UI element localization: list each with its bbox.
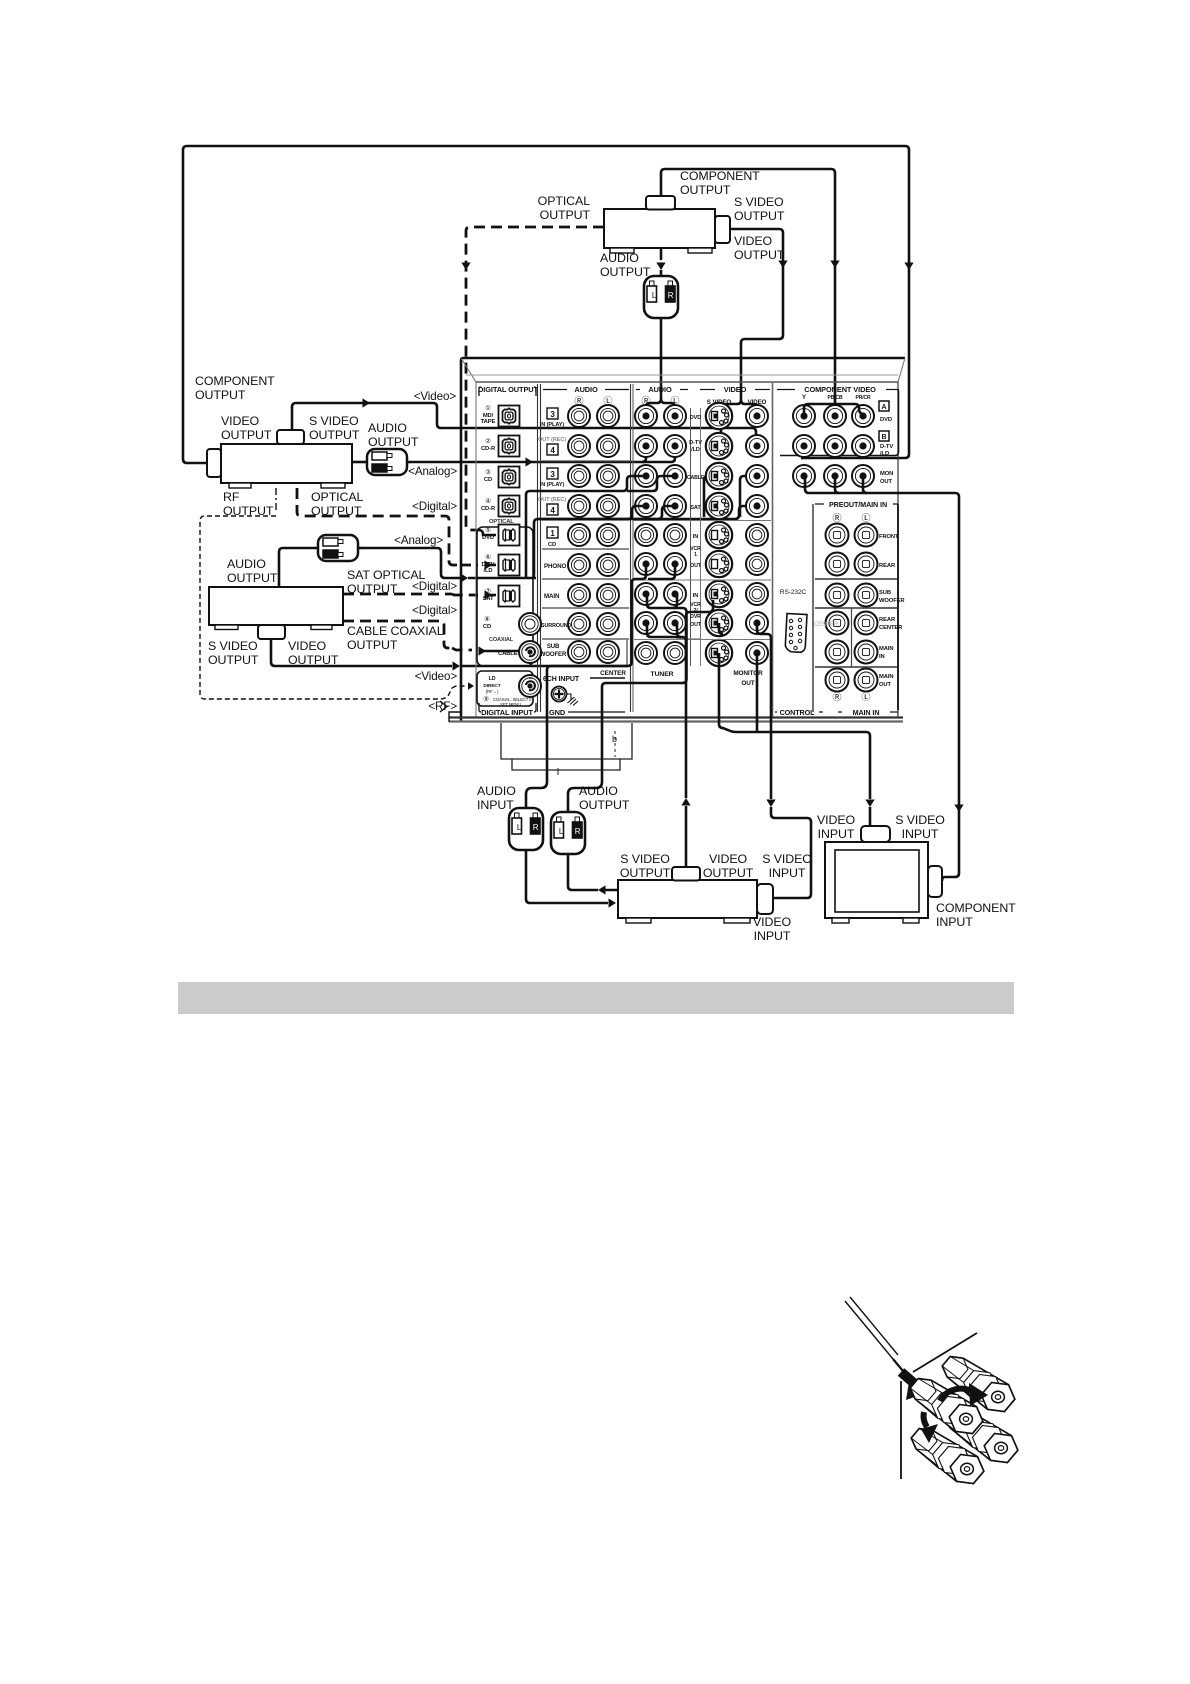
RCA pair plug icon (DVD audio) <box>644 270 678 324</box>
svg-text:REAR: REAR <box>879 617 896 623</box>
svg-text:OUTPUT: OUTPUT <box>680 183 731 197</box>
svg-text:CENTER: CENTER <box>600 670 626 677</box>
svg-text:OUTPUT: OUTPUT <box>540 208 591 222</box>
svg-text:S VIDEO: S VIDEO <box>208 639 258 653</box>
wire device2 audio output cable <box>279 548 313 587</box>
speaker binding post lower left <box>911 1429 984 1484</box>
wire cable coaxial output (dashed) to CABLE coax input <box>343 621 452 648</box>
svg-text:OPTICAL: OPTICAL <box>311 490 364 504</box>
svg-text:SURROUND: SURROUND <box>541 623 572 629</box>
svg-text:<Analog>: <Analog> <box>408 465 457 478</box>
speaker binding post upper right <box>942 1357 1015 1412</box>
svg-text:⑨: ⑨ <box>483 695 489 703</box>
wire VCR1 OUT audio to VCR audio input (via bottom) <box>642 564 675 579</box>
svg-text:DVD: DVD <box>690 415 702 421</box>
svg-text:FRONT: FRONT <box>879 534 899 540</box>
speaker wire <box>845 1301 893 1359</box>
svg-text:OUTPUT: OUTPUT <box>227 571 278 585</box>
speaker panel corner <box>913 1333 977 1372</box>
wire DVD component output to component A jacks <box>661 169 835 410</box>
wire MONITOR OUT s-video down to junction <box>719 653 752 732</box>
svg-text:GND: GND <box>549 708 566 717</box>
VCR box <box>618 880 757 918</box>
svg-text:OUT (REC): OUT (REC) <box>538 437 566 443</box>
wire DVD audio output cable <box>660 248 663 260</box>
svg-text:OUT: OUT <box>741 680 754 687</box>
svg-text:TUNER: TUNER <box>651 671 674 678</box>
svg-text:Ⓡ: Ⓡ <box>833 692 842 702</box>
PREOUT/MAIN IN section <box>812 504 814 712</box>
svg-text:SAT: SAT <box>483 596 494 602</box>
svg-text:1: 1 <box>694 552 697 558</box>
svg-text:VIDEO: VIDEO <box>221 414 260 428</box>
wire video CABLE drop <box>740 476 755 517</box>
svg-text:AUDIO: AUDIO <box>477 784 516 798</box>
wire device1 audio output <Analog> <box>352 461 362 464</box>
svg-text:MAIN: MAIN <box>879 674 893 680</box>
svg-text:CABLE: CABLE <box>687 475 705 481</box>
wire split into S VIDEO DVD and VIDEO DVD jacks <box>723 400 741 414</box>
left device 1 box (player with component/RF) <box>221 444 352 483</box>
svg-text:A: A <box>882 404 887 411</box>
RCA pair plug icon (VCR audio input) <box>509 802 543 856</box>
svg-text:COMPONENT: COMPONENT <box>195 374 275 388</box>
svg-text:<Analog>: <Analog> <box>394 534 443 547</box>
svg-text:S VIDEO: S VIDEO <box>734 195 784 209</box>
svg-text:CD-R: CD-R <box>481 506 496 512</box>
svg-text:WOOFER: WOOFER <box>540 652 567 658</box>
svg-text:/LD: /LD <box>880 451 889 457</box>
wire DVD audio into AUDIO DVD jacks <box>646 324 661 414</box>
wire analog audio to AUDIO D-TV jacks <box>412 461 671 464</box>
wire SAT/CABLE video-svideo trunk along y=519 <box>538 506 755 519</box>
dashed mark <box>614 731 616 757</box>
svg-text:Ⓛ: Ⓛ <box>862 513 871 523</box>
optical connector D-TV/LD <box>499 555 520 576</box>
wire VCR2 OUT audio stubs <box>647 623 686 660</box>
svg-text:CD: CD <box>483 624 491 630</box>
TV box <box>825 842 928 918</box>
coaxial LD(RF) input jack <box>519 675 541 697</box>
svg-text:IN: IN <box>693 593 698 599</box>
svg-text:DIGITAL OUTPUT: DIGITAL OUTPUT <box>478 385 538 394</box>
svg-text:MAIN: MAIN <box>544 593 560 600</box>
AUDIO section RCA jacks (R/L columns) <box>568 405 590 427</box>
svg-text:OPTICAL: OPTICAL <box>489 519 514 525</box>
svg-text:INPUT: INPUT <box>769 866 806 880</box>
svg-text:WOOFER: WOOFER <box>879 598 905 604</box>
label strip VCR groups <box>690 408 692 666</box>
svg-text:VIDEO: VIDEO <box>817 813 856 827</box>
svg-text:INPUT: INPUT <box>902 827 939 841</box>
wire device1 S-video/video output <Video> to D-TV jacks <box>292 403 752 430</box>
svg-text:IN: IN <box>879 654 885 660</box>
svg-text:SUB: SUB <box>547 644 560 650</box>
svg-text:OUTPUT: OUTPUT <box>734 209 785 223</box>
svg-text:OUTPUT: OUTPUT <box>600 265 651 279</box>
svg-text:OUT: OUT <box>879 682 891 688</box>
wire component MON OUT to TV (down right side) <box>805 476 867 493</box>
svg-text:COMPONENT: COMPONENT <box>680 169 760 183</box>
svg-text:S VIDEO: S VIDEO <box>762 852 812 866</box>
wire MONITOR OUT video to TV video input <box>756 653 759 732</box>
wire VCR audio output to VCR2 IN jacks <box>600 889 618 892</box>
svg-text:IN (PLAY): IN (PLAY) <box>540 422 565 428</box>
svg-text:Y: Y <box>802 395 806 401</box>
svg-text:D-TV: D-TV <box>880 444 893 450</box>
VIDEO RCA jacks column <box>746 405 768 427</box>
svg-text:PREOUT/MAIN IN: PREOUT/MAIN IN <box>829 500 887 509</box>
wire RF routing loop (thin dashed) to LD RF input <box>200 516 452 699</box>
VIDEO / COMPONENT divider <box>772 383 774 717</box>
svg-text:3: 3 <box>550 470 555 479</box>
svg-text:OUTPUT: OUTPUT <box>347 582 398 596</box>
svg-text:<Video>: <Video> <box>414 390 457 403</box>
svg-text:MONITOR: MONITOR <box>733 670 763 677</box>
svg-text:D-TV: D-TV <box>689 440 702 446</box>
svg-text:②: ② <box>485 437 491 445</box>
svg-text:6CH INPUT: 6CH INPUT <box>543 676 580 683</box>
svg-text:3: 3 <box>550 410 555 419</box>
svg-text:AUDIO: AUDIO <box>368 421 407 435</box>
svg-text:⑧: ⑧ <box>484 615 490 623</box>
svg-text:COAXIAL: COAXIAL <box>489 637 514 643</box>
svg-text:MON: MON <box>880 471 893 477</box>
wire s-video VCR2 OUT stub <box>719 623 723 634</box>
svg-text:/LD: /LD <box>483 568 492 574</box>
svg-text:DVD: DVD <box>880 417 892 423</box>
left device 2 box (SAT/cable tuner) <box>209 587 343 625</box>
svg-text:Ⓛ: Ⓛ <box>862 692 871 702</box>
svg-text:AUDIO: AUDIO <box>648 385 672 394</box>
svg-text:OUTPUT: OUTPUT <box>309 428 360 442</box>
svg-text:CD: CD <box>484 477 492 483</box>
wire analog audio <Analog> into panel, to SAT audio jacks <box>363 548 460 578</box>
S VIDEO connectors column <box>706 403 732 429</box>
svg-text:REAR: REAR <box>879 563 896 569</box>
svg-text:AUDIO: AUDIO <box>579 784 618 798</box>
wire SAT optical output (dashed) to digital input 7 <box>343 593 452 596</box>
wire s-video SAT branch <box>704 505 712 508</box>
svg-text:VIDEO: VIDEO <box>724 385 747 394</box>
LD(RF) input box <box>477 671 533 706</box>
svg-text:<Digital>: <Digital> <box>412 580 457 593</box>
svg-text:/LD: /LD <box>691 447 700 453</box>
AUDIO source jacks column R/L <box>635 405 657 427</box>
svg-text:OUT: OUT <box>690 622 702 628</box>
svg-text:CABLE: CABLE <box>498 651 518 657</box>
svg-text:PR/CR: PR/CR <box>855 395 871 401</box>
svg-text:CENTER: CENTER <box>879 625 903 631</box>
ground symbol <box>566 694 578 706</box>
speaker binding post upper left (being tightened) <box>910 1379 983 1434</box>
receiver panel bottom double rail <box>449 716 903 718</box>
svg-text:OUT (REC): OUT (REC) <box>538 497 566 503</box>
label A DVD <box>879 401 889 411</box>
svg-text:RF: RF <box>223 490 240 504</box>
svg-text:VIDEO: VIDEO <box>734 234 773 248</box>
wire device1 optical output (heavy dashed) to digital input 6 <box>297 488 460 565</box>
svg-text:CD: CD <box>548 542 556 548</box>
svg-text:<Digital>: <Digital> <box>412 500 457 513</box>
svg-text:OUTPUT: OUTPUT <box>368 435 419 449</box>
svg-text:LD: LD <box>489 676 496 682</box>
svg-text:AUDIO: AUDIO <box>600 251 639 265</box>
svg-text:OUTPUT: OUTPUT <box>195 388 246 402</box>
svg-text:b: b <box>612 734 617 744</box>
label B D-TV/LD <box>879 431 889 441</box>
svg-text:①: ① <box>485 404 491 412</box>
PREOUT jacks <box>826 524 849 547</box>
svg-text:<RF>: <RF> <box>428 700 457 713</box>
svg-text:OUT: OUT <box>880 479 892 485</box>
svg-text:<Video>: <Video> <box>415 670 458 683</box>
svg-text:VIDEO: VIDEO <box>709 852 748 866</box>
DVD player box <box>604 209 715 248</box>
DB9 connector <box>785 614 807 653</box>
receiver underside box <box>501 723 632 759</box>
svg-text:AUDIO: AUDIO <box>227 557 266 571</box>
svg-text:OUTPUT: OUTPUT <box>311 504 362 518</box>
optical connector SAT <box>499 586 520 607</box>
optical connector CD <box>499 467 520 488</box>
svg-text:4: 4 <box>550 446 555 455</box>
svg-text:⑥: ⑥ <box>485 553 491 561</box>
svg-text:VIDEO: VIDEO <box>753 915 792 929</box>
svg-text:OUTPUT: OUTPUT <box>347 638 398 652</box>
svg-text:③: ③ <box>485 468 491 476</box>
svg-text:S VIDEO: S VIDEO <box>309 414 359 428</box>
svg-text:IN: IN <box>693 534 698 540</box>
coaxial CABLE input jack <box>519 641 541 663</box>
svg-text:④: ④ <box>485 497 491 505</box>
wire RF output (dash-dot) <box>275 488 277 512</box>
svg-text:OUTPUT: OUTPUT <box>221 428 272 442</box>
svg-text:VIDEO: VIDEO <box>288 639 327 653</box>
wire component A internal Y-Pr link <box>804 404 863 414</box>
svg-text:⑤: ⑤ <box>485 526 491 534</box>
wire s-video CABLE drop <box>704 476 712 517</box>
svg-text:OUTPUT: OUTPUT <box>208 653 259 667</box>
svg-text:TAPE: TAPE <box>481 419 496 425</box>
svg-text:4: 4 <box>550 506 555 515</box>
svg-text:INPUT: INPUT <box>818 827 855 841</box>
svg-text:SAT: SAT <box>690 505 701 511</box>
receiver rear panel chassis <box>461 358 905 722</box>
component A row jacks <box>793 405 815 427</box>
svg-text:⑦: ⑦ <box>485 587 491 595</box>
svg-text:Ⓡ: Ⓡ <box>833 513 842 523</box>
grey heading bar <box>178 982 1014 1014</box>
svg-text:INPUT: INPUT <box>936 915 973 929</box>
wire CABLE box audio to CABLE audio jacks <box>526 476 646 578</box>
svg-text:INPUT: INPUT <box>754 929 791 943</box>
AUDIO section frame <box>630 384 632 712</box>
svg-text:CONTROL: CONTROL <box>780 708 816 717</box>
small chevron arrow at panel corner <box>440 701 447 712</box>
component MON OUT jacks <box>793 465 815 487</box>
optical connector MD/TAPE <box>499 406 520 427</box>
svg-text:OUTPUT: OUTPUT <box>620 866 671 880</box>
svg-text:OUTPUT: OUTPUT <box>734 248 785 262</box>
wire device2 video output <Video> into panel to VIDEO SAT jack <box>271 639 452 666</box>
svg-text:COMPONENT: COMPONENT <box>936 901 1016 915</box>
svg-text:1: 1 <box>550 529 555 538</box>
GND terminal screw <box>552 687 567 702</box>
svg-text:DVR: DVR <box>690 614 701 620</box>
svg-text:SET MENU: SET MENU <box>500 702 521 707</box>
svg-text:<Digital>: <Digital> <box>412 604 457 617</box>
svg-text:CENTER: CENTER <box>814 622 839 628</box>
svg-text:COMPONENT VIDEO: COMPONENT VIDEO <box>804 385 876 394</box>
svg-text:CABLE COAXIAL: CABLE COAXIAL <box>347 624 444 638</box>
svg-text:OUT: OUT <box>690 563 702 569</box>
svg-text:PHONO: PHONO <box>544 563 566 570</box>
svg-text:CD-R: CD-R <box>481 446 496 452</box>
wire VCR s-video output up into panel <box>685 806 688 867</box>
svg-text:MAIN IN: MAIN IN <box>853 708 880 717</box>
svg-text:OPTICAL: OPTICAL <box>538 194 591 208</box>
svg-text:IN (PLAY): IN (PLAY) <box>540 482 565 488</box>
svg-text:INPUT: INPUT <box>477 798 514 812</box>
svg-text:MAIN: MAIN <box>879 646 893 652</box>
wire video VCR2 OUT to VCR S-video input <box>757 623 771 799</box>
wire DVD optical output (dashed) to digital input 5 <box>466 227 604 530</box>
svg-text:PB/CB: PB/CB <box>827 395 843 401</box>
svg-text:OUTPUT: OUTPUT <box>579 798 630 812</box>
DIGITAL INPUT group box <box>477 527 533 666</box>
wire SAT audio jacks to device2 analog line <box>532 506 647 578</box>
optical connector DVD <box>499 525 520 546</box>
wire component output loop around page top to component B jacks <box>183 146 909 463</box>
black arrow (insert wire) <box>901 1372 915 1384</box>
optical connector CD-R <box>499 436 520 457</box>
DIGITAL OUTPUT section frame <box>537 384 539 712</box>
svg-text:DVD: DVD <box>482 535 494 541</box>
svg-text:OUTPUT: OUTPUT <box>703 866 754 880</box>
optical connector CD-R <box>499 496 520 517</box>
coaxial CD input jack <box>519 613 541 635</box>
component B row jacks <box>793 435 815 457</box>
svg-text:(RF→): (RF→) <box>486 689 499 694</box>
svg-text:B: B <box>882 434 887 441</box>
wire split into S VIDEO D-TV and VIDEO D-TV jacks <box>720 428 723 444</box>
svg-text:RS-232C: RS-232C <box>780 589 807 596</box>
wire stubs up into component B jacks <box>801 450 863 458</box>
svg-text:S VIDEO: S VIDEO <box>620 852 670 866</box>
svg-text:DIGITAL INPUT: DIGITAL INPUT <box>481 708 533 717</box>
speaker binding post lower right <box>945 1408 1018 1463</box>
svg-text:S VIDEO: S VIDEO <box>895 813 945 827</box>
svg-text:AUDIO: AUDIO <box>574 385 598 394</box>
VCR group separators <box>634 520 771 522</box>
svg-text:SUB: SUB <box>879 590 891 596</box>
rotation arrow around post being tightened <box>940 1389 975 1401</box>
wire DVD S-video/video output to DVD video jacks <box>730 229 783 400</box>
